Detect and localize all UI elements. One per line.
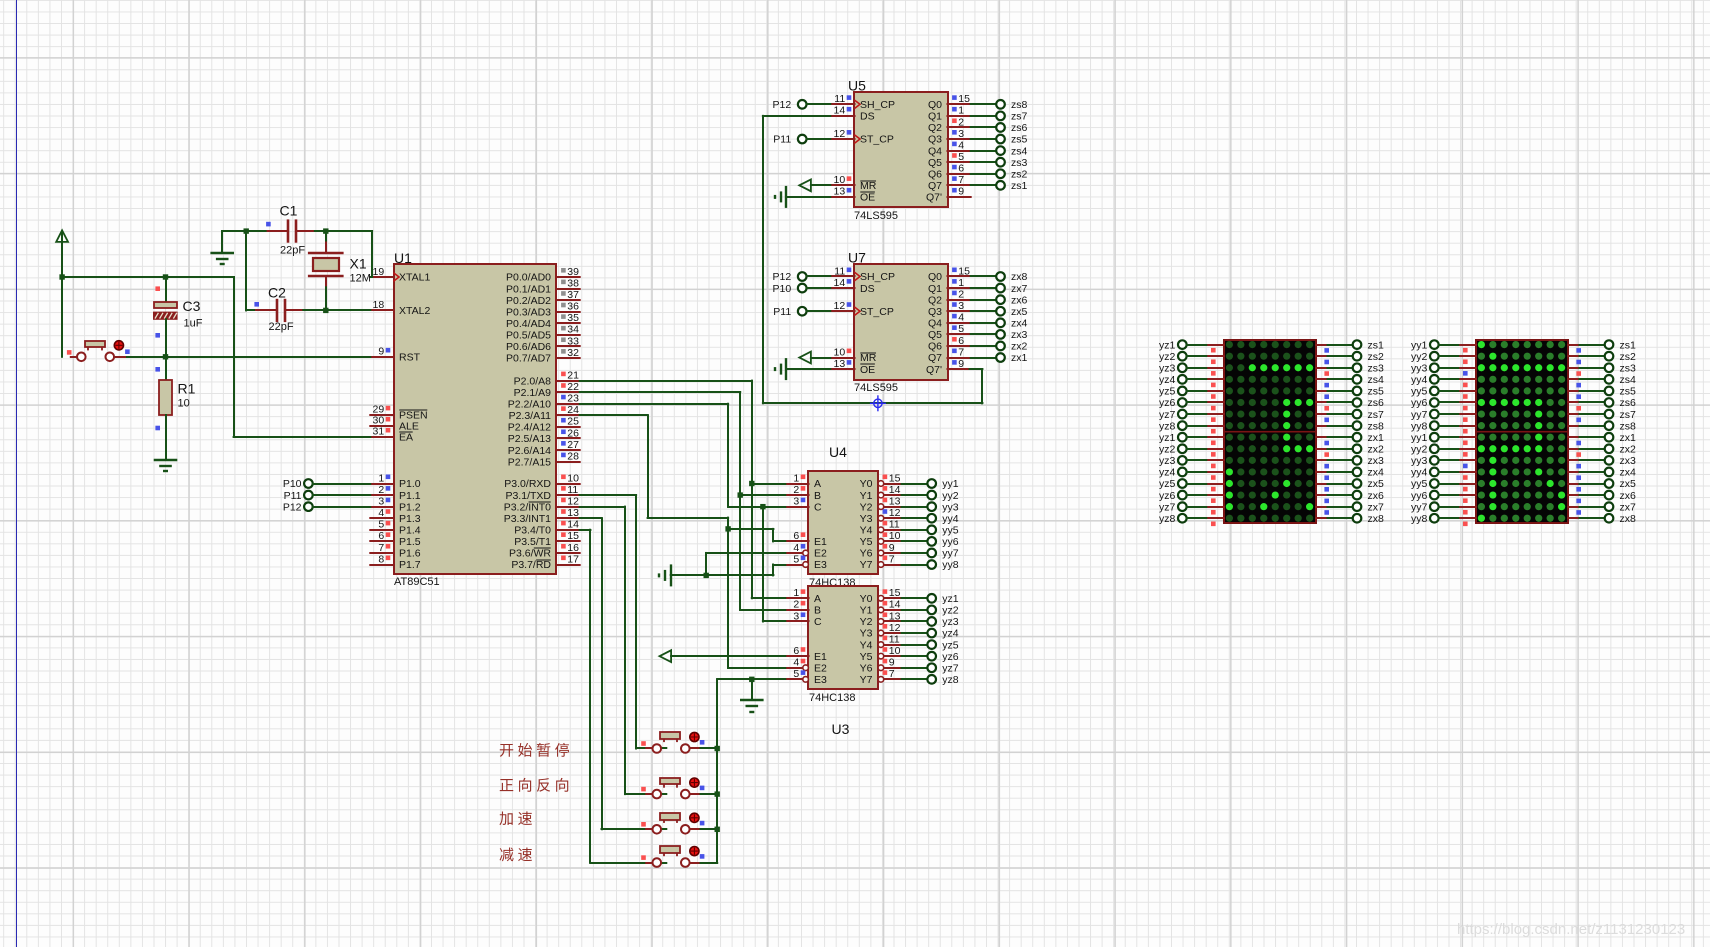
svg-text:zs1: zs1 bbox=[1620, 339, 1637, 351]
svg-text:SH_CP: SH_CP bbox=[860, 271, 895, 283]
svg-text:4: 4 bbox=[793, 657, 799, 669]
svg-text:yy3: yy3 bbox=[1411, 455, 1428, 467]
svg-text:zs2: zs2 bbox=[1368, 351, 1385, 363]
svg-text:Q2: Q2 bbox=[928, 294, 942, 306]
svg-text:OE: OE bbox=[860, 364, 875, 376]
svg-text:Q7': Q7' bbox=[926, 192, 942, 204]
svg-text:6: 6 bbox=[958, 335, 964, 347]
svg-text:34: 34 bbox=[567, 324, 579, 336]
svg-text:22: 22 bbox=[567, 381, 579, 393]
svg-text:2: 2 bbox=[958, 288, 964, 300]
svg-text:yz6: yz6 bbox=[1159, 397, 1176, 409]
svg-text:yy4: yy4 bbox=[942, 513, 959, 525]
svg-text:Y4: Y4 bbox=[860, 525, 873, 537]
svg-text:P3.6/: P3.6/ bbox=[509, 548, 534, 560]
svg-text:MR: MR bbox=[860, 180, 877, 192]
svg-text:C2: C2 bbox=[268, 285, 286, 301]
svg-text:yz2: yz2 bbox=[942, 605, 959, 617]
svg-text:zs6: zs6 bbox=[1620, 397, 1637, 409]
svg-text:U4: U4 bbox=[829, 444, 847, 460]
svg-text:SH_CP: SH_CP bbox=[860, 99, 895, 111]
svg-text:Y5: Y5 bbox=[860, 536, 873, 548]
svg-text:4: 4 bbox=[958, 139, 964, 151]
svg-text:14: 14 bbox=[889, 599, 901, 611]
svg-text:yz1: yz1 bbox=[1159, 339, 1176, 351]
svg-text:12M: 12M bbox=[350, 273, 371, 285]
svg-text:Q5: Q5 bbox=[928, 329, 942, 341]
svg-text:7: 7 bbox=[378, 542, 384, 554]
svg-text:11: 11 bbox=[834, 93, 845, 105]
svg-text:zx5: zx5 bbox=[1620, 478, 1637, 490]
svg-text:Q7': Q7' bbox=[926, 364, 942, 376]
svg-text:P11: P11 bbox=[284, 490, 302, 502]
svg-text:2: 2 bbox=[793, 484, 799, 496]
svg-text:E2: E2 bbox=[814, 548, 827, 560]
svg-text:14: 14 bbox=[889, 484, 901, 496]
svg-text:10: 10 bbox=[834, 346, 846, 358]
svg-text:Q4: Q4 bbox=[928, 318, 942, 330]
svg-text:32: 32 bbox=[567, 347, 579, 359]
svg-text:18: 18 bbox=[373, 299, 385, 311]
svg-text:Y2: Y2 bbox=[860, 616, 873, 628]
svg-text:8: 8 bbox=[378, 553, 384, 565]
svg-text:yy7: yy7 bbox=[1411, 501, 1428, 513]
svg-text:P3.0/RXD: P3.0/RXD bbox=[504, 478, 551, 490]
svg-text:zs6: zs6 bbox=[1368, 397, 1385, 409]
svg-text:3: 3 bbox=[378, 495, 384, 507]
svg-text:Y6: Y6 bbox=[860, 548, 873, 560]
svg-text:1: 1 bbox=[793, 587, 799, 599]
svg-text:zx2: zx2 bbox=[1620, 443, 1637, 455]
svg-text:Y2: Y2 bbox=[860, 501, 873, 513]
svg-text:4: 4 bbox=[378, 507, 384, 519]
svg-text:E2: E2 bbox=[814, 662, 827, 674]
svg-text:10: 10 bbox=[567, 472, 579, 484]
svg-text:zx2: zx2 bbox=[1011, 341, 1028, 353]
svg-text:yy2: yy2 bbox=[942, 490, 959, 502]
svg-text:11: 11 bbox=[567, 484, 578, 496]
svg-text:Y7: Y7 bbox=[860, 674, 873, 686]
svg-text:U3: U3 bbox=[832, 721, 850, 737]
svg-text:2: 2 bbox=[378, 484, 384, 496]
svg-text:15: 15 bbox=[889, 587, 901, 599]
svg-text:36: 36 bbox=[567, 301, 579, 313]
svg-text:zs6: zs6 bbox=[1011, 122, 1028, 134]
svg-text:zx3: zx3 bbox=[1368, 455, 1385, 467]
svg-text:yz8: yz8 bbox=[942, 674, 959, 686]
svg-text:zs7: zs7 bbox=[1011, 111, 1028, 123]
svg-text:10: 10 bbox=[178, 398, 190, 410]
svg-text:P1.0: P1.0 bbox=[399, 478, 421, 490]
svg-text:1: 1 bbox=[378, 472, 384, 484]
svg-text:21: 21 bbox=[567, 369, 579, 381]
svg-text:ST_CP: ST_CP bbox=[860, 306, 894, 318]
svg-text:5: 5 bbox=[793, 553, 799, 565]
svg-text:E3: E3 bbox=[814, 674, 827, 686]
svg-text:yy1: yy1 bbox=[942, 478, 959, 490]
svg-text:P0.2/AD2: P0.2/AD2 bbox=[506, 295, 551, 307]
svg-text:3: 3 bbox=[793, 610, 799, 622]
svg-text:zx8: zx8 bbox=[1368, 513, 1385, 525]
svg-text:2: 2 bbox=[793, 599, 799, 611]
svg-text:R1: R1 bbox=[178, 381, 196, 397]
svg-text:U7: U7 bbox=[848, 250, 866, 266]
svg-text:P12: P12 bbox=[283, 501, 302, 513]
svg-text:11: 11 bbox=[834, 265, 845, 277]
svg-text:zs8: zs8 bbox=[1011, 99, 1028, 111]
svg-text:XTAL2: XTAL2 bbox=[399, 305, 430, 317]
svg-text:yy4: yy4 bbox=[1411, 467, 1428, 479]
svg-text:C: C bbox=[814, 501, 822, 513]
svg-text:Y0: Y0 bbox=[860, 478, 873, 490]
svg-text:6: 6 bbox=[793, 645, 799, 657]
svg-text:yz2: yz2 bbox=[1159, 351, 1176, 363]
svg-text:zs4: zs4 bbox=[1368, 374, 1385, 386]
svg-text:P11: P11 bbox=[773, 134, 791, 146]
svg-text:5: 5 bbox=[793, 668, 799, 680]
svg-text:Q3: Q3 bbox=[928, 306, 942, 318]
svg-text:zx6: zx6 bbox=[1620, 490, 1637, 502]
svg-text:Q0: Q0 bbox=[928, 271, 942, 283]
svg-text:zs4: zs4 bbox=[1011, 145, 1028, 157]
svg-text:B: B bbox=[814, 490, 821, 502]
svg-text:74LS595: 74LS595 bbox=[854, 210, 898, 222]
svg-text:zs3: zs3 bbox=[1620, 362, 1637, 374]
svg-text:P10: P10 bbox=[283, 478, 302, 490]
svg-text:C1: C1 bbox=[280, 203, 298, 219]
svg-text:yy8: yy8 bbox=[1411, 513, 1428, 525]
svg-text:13: 13 bbox=[567, 507, 579, 519]
svg-text:P0.6/AD6: P0.6/AD6 bbox=[506, 341, 551, 353]
svg-text:zx7: zx7 bbox=[1620, 501, 1637, 513]
svg-text:13: 13 bbox=[889, 495, 901, 507]
svg-text:zx6: zx6 bbox=[1368, 490, 1385, 502]
svg-text:yz3: yz3 bbox=[1159, 362, 1176, 374]
svg-text:39: 39 bbox=[567, 266, 579, 278]
svg-text:DS: DS bbox=[860, 111, 875, 123]
svg-text:15: 15 bbox=[889, 472, 901, 484]
svg-text:9: 9 bbox=[889, 542, 895, 554]
svg-text:zx1: zx1 bbox=[1620, 432, 1637, 444]
svg-text:P0.0/AD0: P0.0/AD0 bbox=[506, 272, 551, 284]
svg-text:Y6: Y6 bbox=[860, 662, 873, 674]
svg-text:yz3: yz3 bbox=[942, 616, 959, 628]
svg-text:Q6: Q6 bbox=[928, 341, 942, 353]
svg-text:15: 15 bbox=[958, 93, 970, 105]
svg-text:zx2: zx2 bbox=[1368, 443, 1385, 455]
svg-text:P11: P11 bbox=[773, 306, 791, 318]
svg-text:P2.6/A14: P2.6/A14 bbox=[508, 445, 551, 457]
svg-text:26: 26 bbox=[567, 427, 579, 439]
svg-text:22pF: 22pF bbox=[269, 321, 294, 333]
svg-text:yy3: yy3 bbox=[942, 501, 959, 513]
svg-text:yz7: yz7 bbox=[1159, 501, 1176, 513]
svg-text:12: 12 bbox=[834, 300, 846, 312]
svg-text:yz4: yz4 bbox=[1159, 374, 1176, 386]
svg-text:zs2: zs2 bbox=[1011, 168, 1028, 180]
svg-text:Y5: Y5 bbox=[860, 651, 873, 663]
svg-text:P1.1: P1.1 bbox=[399, 490, 421, 502]
svg-text:17: 17 bbox=[567, 553, 579, 565]
svg-text:1uF: 1uF bbox=[184, 318, 203, 330]
svg-text:6: 6 bbox=[958, 163, 964, 175]
svg-text:35: 35 bbox=[567, 312, 579, 324]
svg-text:P2.2/A10: P2.2/A10 bbox=[508, 398, 551, 410]
svg-text:5: 5 bbox=[958, 151, 964, 163]
svg-text:11: 11 bbox=[889, 633, 900, 645]
svg-text:16: 16 bbox=[567, 542, 579, 554]
svg-text:yy5: yy5 bbox=[1411, 478, 1428, 490]
svg-text:22pF: 22pF bbox=[280, 245, 305, 257]
svg-text:Q5: Q5 bbox=[928, 157, 942, 169]
svg-text:P0.4/AD4: P0.4/AD4 bbox=[506, 318, 551, 330]
svg-text:yz1: yz1 bbox=[1159, 432, 1176, 444]
svg-text:Q7: Q7 bbox=[928, 180, 942, 192]
svg-text:12: 12 bbox=[889, 622, 901, 634]
svg-text:P12: P12 bbox=[773, 271, 792, 283]
svg-text:Q1: Q1 bbox=[928, 111, 942, 123]
svg-text:yz7: yz7 bbox=[1159, 409, 1176, 421]
svg-text:zx7: zx7 bbox=[1011, 283, 1028, 295]
svg-text:P12: P12 bbox=[773, 99, 792, 111]
svg-text:zs4: zs4 bbox=[1620, 374, 1637, 386]
svg-text:RST: RST bbox=[399, 352, 421, 364]
svg-text:38: 38 bbox=[567, 277, 579, 289]
svg-text:WR: WR bbox=[534, 548, 552, 560]
svg-text:yy5: yy5 bbox=[1411, 386, 1428, 398]
svg-text:P1.4: P1.4 bbox=[399, 525, 421, 537]
svg-text:P2.5/A13: P2.5/A13 bbox=[508, 433, 551, 445]
svg-text:zx1: zx1 bbox=[1368, 432, 1385, 444]
svg-text:37: 37 bbox=[567, 289, 579, 301]
svg-text:P3.4/T0: P3.4/T0 bbox=[514, 525, 551, 537]
svg-text:zs5: zs5 bbox=[1368, 386, 1385, 398]
svg-text:P3.3/INT1: P3.3/INT1 bbox=[504, 513, 551, 525]
svg-text:Y3: Y3 bbox=[860, 513, 873, 525]
svg-text:yz6: yz6 bbox=[942, 651, 959, 663]
svg-text:P3.2/: P3.2/ bbox=[504, 501, 529, 513]
svg-text:5: 5 bbox=[378, 519, 384, 531]
svg-text:zs5: zs5 bbox=[1011, 134, 1028, 146]
svg-text:B: B bbox=[814, 605, 821, 617]
svg-text:https://blog.csdn.net/z1131230: https://blog.csdn.net/z1131230123 bbox=[1457, 921, 1685, 938]
svg-text:OE: OE bbox=[860, 192, 875, 204]
svg-text:4: 4 bbox=[793, 542, 799, 554]
svg-text:zs5: zs5 bbox=[1620, 386, 1637, 398]
svg-text:1: 1 bbox=[793, 472, 799, 484]
svg-text:Y1: Y1 bbox=[860, 490, 873, 502]
svg-text:yz1: yz1 bbox=[942, 593, 959, 605]
svg-text:yy3: yy3 bbox=[1411, 362, 1428, 374]
svg-text:ST_CP: ST_CP bbox=[860, 134, 894, 146]
svg-text:zx5: zx5 bbox=[1368, 478, 1385, 490]
svg-text:P1.2: P1.2 bbox=[399, 501, 421, 513]
svg-text:13: 13 bbox=[834, 358, 846, 370]
svg-text:7: 7 bbox=[958, 174, 964, 186]
svg-text:C: C bbox=[814, 616, 822, 628]
svg-text:X1: X1 bbox=[350, 256, 367, 272]
svg-text:RD: RD bbox=[536, 559, 552, 571]
svg-text:zs8: zs8 bbox=[1368, 420, 1385, 432]
svg-text:12: 12 bbox=[889, 507, 901, 519]
svg-text:zs1: zs1 bbox=[1368, 339, 1385, 351]
svg-text:INT0: INT0 bbox=[528, 501, 551, 513]
svg-text:Y7: Y7 bbox=[860, 559, 873, 571]
svg-text:2: 2 bbox=[958, 116, 964, 128]
svg-text:zs8: zs8 bbox=[1620, 420, 1637, 432]
svg-text:19: 19 bbox=[373, 266, 385, 278]
svg-text:E1: E1 bbox=[814, 651, 827, 663]
svg-text:C3: C3 bbox=[183, 298, 201, 314]
svg-text:zx4: zx4 bbox=[1368, 467, 1385, 479]
svg-text:Y0: Y0 bbox=[860, 593, 873, 605]
svg-text:yz3: yz3 bbox=[1159, 455, 1176, 467]
svg-text:AT89C51: AT89C51 bbox=[394, 576, 440, 588]
svg-text:P1.7: P1.7 bbox=[399, 559, 421, 571]
svg-text:P2.0/A8: P2.0/A8 bbox=[514, 375, 552, 387]
svg-text:5: 5 bbox=[958, 323, 964, 335]
svg-text:zx8: zx8 bbox=[1011, 271, 1028, 283]
svg-text:Q0: Q0 bbox=[928, 99, 942, 111]
svg-text:9: 9 bbox=[378, 346, 384, 358]
svg-text:P1.3: P1.3 bbox=[399, 513, 421, 525]
svg-text:4: 4 bbox=[958, 312, 964, 324]
svg-text:zs7: zs7 bbox=[1620, 409, 1637, 421]
svg-text:zs1: zs1 bbox=[1011, 180, 1028, 192]
svg-text:14: 14 bbox=[567, 519, 579, 531]
svg-text:P0.7/AD7: P0.7/AD7 bbox=[506, 353, 551, 365]
svg-text:7: 7 bbox=[958, 346, 964, 358]
svg-text:zx7: zx7 bbox=[1368, 501, 1385, 513]
svg-text:yz5: yz5 bbox=[1159, 386, 1176, 398]
svg-text:33: 33 bbox=[567, 335, 579, 347]
svg-text:Q1: Q1 bbox=[928, 283, 942, 295]
svg-text:P2.7/A15: P2.7/A15 bbox=[508, 456, 551, 468]
svg-text:10: 10 bbox=[834, 174, 846, 186]
svg-text:74LS595: 74LS595 bbox=[854, 382, 898, 394]
svg-text:Q3: Q3 bbox=[928, 134, 942, 146]
svg-text:yy6: yy6 bbox=[1411, 397, 1428, 409]
svg-text:yy6: yy6 bbox=[1411, 490, 1428, 502]
svg-text:P2.3/A11: P2.3/A11 bbox=[509, 410, 552, 422]
svg-text:24: 24 bbox=[567, 404, 579, 416]
svg-text:P2.4/A12: P2.4/A12 bbox=[508, 422, 551, 434]
svg-text:3: 3 bbox=[793, 495, 799, 507]
svg-text:13: 13 bbox=[889, 610, 901, 622]
svg-text:3: 3 bbox=[958, 300, 964, 312]
svg-text:yz2: yz2 bbox=[1159, 443, 1176, 455]
svg-text:P1.6: P1.6 bbox=[399, 548, 421, 560]
svg-text:Q4: Q4 bbox=[928, 145, 942, 157]
svg-text:yy2: yy2 bbox=[1411, 443, 1428, 455]
svg-text:27: 27 bbox=[567, 439, 579, 451]
svg-text:9: 9 bbox=[958, 186, 964, 198]
svg-text:E1: E1 bbox=[814, 536, 827, 548]
svg-text:yy7: yy7 bbox=[942, 548, 959, 560]
svg-text:Q2: Q2 bbox=[928, 122, 942, 134]
svg-text:zs3: zs3 bbox=[1368, 362, 1385, 374]
svg-text:P1.5: P1.5 bbox=[399, 536, 421, 548]
svg-text:9: 9 bbox=[889, 657, 895, 669]
svg-text:zx8: zx8 bbox=[1620, 513, 1637, 525]
svg-text:12: 12 bbox=[834, 128, 846, 140]
svg-text:P0.3/AD3: P0.3/AD3 bbox=[506, 306, 551, 318]
svg-text:A: A bbox=[814, 593, 821, 605]
svg-text:6: 6 bbox=[378, 530, 384, 542]
svg-text:EA: EA bbox=[399, 432, 413, 444]
svg-text:yy2: yy2 bbox=[1411, 351, 1428, 363]
svg-text:yy5: yy5 bbox=[942, 525, 959, 537]
svg-text:31: 31 bbox=[373, 426, 385, 438]
svg-text:25: 25 bbox=[567, 416, 579, 428]
svg-text:yy1: yy1 bbox=[1411, 339, 1428, 351]
svg-text:P0.5/AD5: P0.5/AD5 bbox=[506, 330, 551, 342]
svg-text:zs2: zs2 bbox=[1620, 351, 1637, 363]
svg-text:U1: U1 bbox=[394, 250, 412, 266]
svg-text:yz5: yz5 bbox=[1159, 478, 1176, 490]
svg-text:U5: U5 bbox=[848, 77, 866, 93]
svg-text:zx4: zx4 bbox=[1620, 467, 1637, 479]
svg-text:7: 7 bbox=[889, 668, 895, 680]
svg-text:14: 14 bbox=[834, 277, 846, 289]
svg-text:yz4: yz4 bbox=[1159, 467, 1176, 479]
svg-text:3: 3 bbox=[958, 128, 964, 140]
svg-text:15: 15 bbox=[958, 265, 970, 277]
svg-text:P3.7/: P3.7/ bbox=[511, 559, 536, 571]
svg-text:zx3: zx3 bbox=[1011, 329, 1028, 341]
svg-text:11: 11 bbox=[889, 519, 900, 531]
svg-text:1: 1 bbox=[958, 277, 964, 289]
svg-text:yz4: yz4 bbox=[942, 628, 959, 640]
svg-text:74HC138: 74HC138 bbox=[809, 692, 855, 704]
svg-text:6: 6 bbox=[793, 530, 799, 542]
svg-text:yy8: yy8 bbox=[1411, 420, 1428, 432]
svg-text:yy7: yy7 bbox=[1411, 409, 1428, 421]
svg-text:XTAL1: XTAL1 bbox=[399, 272, 430, 284]
svg-text:9: 9 bbox=[958, 358, 964, 370]
svg-text:28: 28 bbox=[567, 450, 579, 462]
svg-text:13: 13 bbox=[834, 186, 846, 198]
svg-text:MR: MR bbox=[860, 352, 877, 364]
svg-text:zx6: zx6 bbox=[1011, 294, 1028, 306]
svg-text:P0.1/AD1: P0.1/AD1 bbox=[506, 283, 551, 295]
svg-text:15: 15 bbox=[567, 530, 579, 542]
svg-text:yz8: yz8 bbox=[1159, 420, 1176, 432]
svg-text:yy8: yy8 bbox=[942, 559, 959, 571]
svg-text:zx1: zx1 bbox=[1011, 352, 1028, 364]
svg-text:Q6: Q6 bbox=[928, 168, 942, 180]
svg-text:yz6: yz6 bbox=[1159, 490, 1176, 502]
svg-text:zs3: zs3 bbox=[1011, 157, 1028, 169]
svg-text:yz8: yz8 bbox=[1159, 513, 1176, 525]
svg-text:12: 12 bbox=[567, 495, 579, 507]
svg-text:P2.1/A9: P2.1/A9 bbox=[514, 387, 552, 399]
svg-text:Q7: Q7 bbox=[928, 352, 942, 364]
svg-text:10: 10 bbox=[889, 530, 901, 542]
svg-text:1: 1 bbox=[958, 105, 964, 117]
svg-text:E3: E3 bbox=[814, 559, 827, 571]
svg-text:Y3: Y3 bbox=[860, 628, 873, 640]
svg-text:A: A bbox=[814, 478, 821, 490]
svg-text:P3.1/TXD: P3.1/TXD bbox=[505, 490, 551, 502]
svg-text:DS: DS bbox=[860, 283, 875, 295]
svg-text:7: 7 bbox=[889, 553, 895, 565]
svg-text:yy1: yy1 bbox=[1411, 432, 1428, 444]
svg-text:yy4: yy4 bbox=[1411, 374, 1428, 386]
svg-text:23: 23 bbox=[567, 393, 579, 405]
svg-text:P3.5/T1: P3.5/T1 bbox=[514, 536, 551, 548]
svg-text:zx3: zx3 bbox=[1620, 455, 1637, 467]
